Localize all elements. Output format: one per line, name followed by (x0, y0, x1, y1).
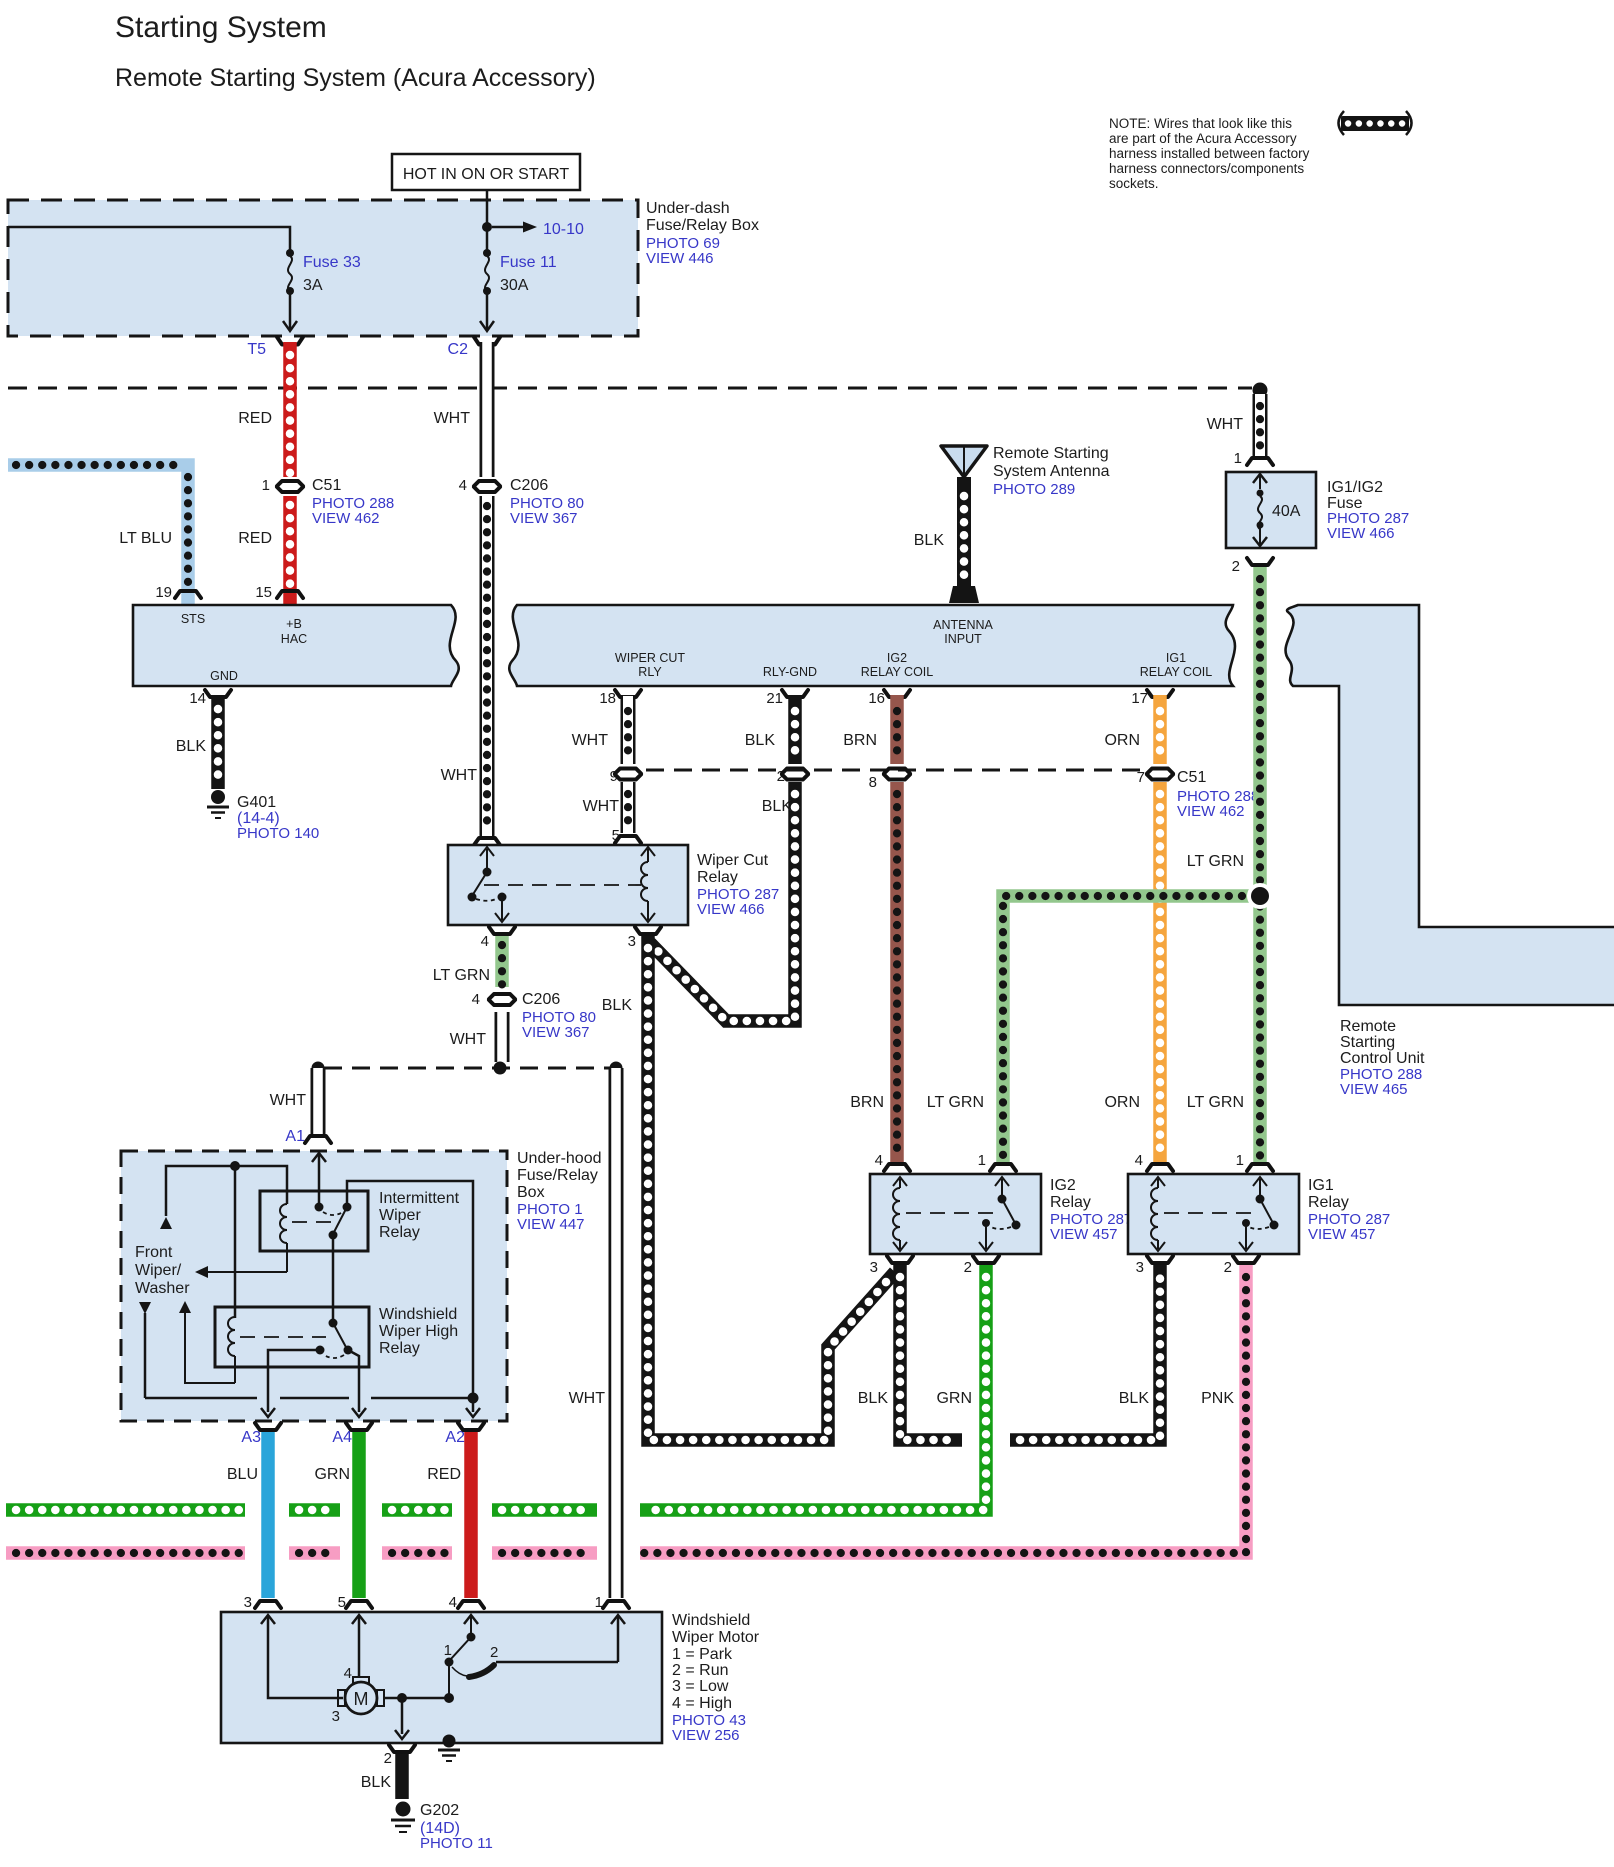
pin 14 connector (189, 690, 231, 707)
svg-text:Wiper Cut: Wiper Cut (697, 852, 769, 869)
note icon: accessory wire sample (1339, 111, 1412, 135)
svg-text:Relay: Relay (1050, 1194, 1091, 1211)
svg-text:BLU: BLU (227, 1466, 258, 1483)
svg-text:VIEW 457: VIEW 457 (1050, 1226, 1118, 1243)
pin 3 connector below IG1 relay (1136, 1256, 1173, 1276)
wire: BRN pin 8 to IG2 relay pin 4 (850, 782, 897, 1162)
svg-text:LT GRN: LT GRN (433, 967, 490, 984)
svg-text:LT GRN: LT GRN (927, 1094, 984, 1111)
wire: BLK pin 2 down and over to wiper relay pin 3 (650, 782, 795, 1021)
title: Starting System (115, 11, 327, 44)
svg-text:3: 3 (244, 1594, 252, 1611)
svg-text:1: 1 (1234, 450, 1242, 467)
wire: LT GRN fuse pin 2 to IG1 relay pin 1 (1187, 567, 1260, 1162)
wire: top interior rail (160, 1161, 287, 1229)
connector C206 pin 4 (lower) (472, 991, 596, 1041)
svg-text:Wiper: Wiper (379, 1207, 421, 1224)
svg-text:RLY-GND: RLY-GND (763, 665, 817, 679)
label: Front Wiper/Washer (135, 1244, 190, 1297)
ground G401 (207, 790, 319, 842)
svg-text:2: 2 (1232, 558, 1240, 575)
dash-dot link in IG1 relay (1164, 1212, 1252, 1214)
svg-text:VIEW 256: VIEW 256 (672, 1727, 740, 1744)
svg-text:4: 4 (1135, 1152, 1143, 1169)
svg-text:WHT: WHT (434, 410, 471, 427)
motor park switch (444, 1615, 625, 1698)
svg-text:VIEW 457: VIEW 457 (1308, 1226, 1376, 1243)
pin 15 connector (255, 584, 303, 601)
svg-text:Fuse 33: Fuse 33 (303, 254, 361, 271)
wire: high relay coil to Front Wiper/Washer (up arrow) (179, 1301, 235, 1383)
harness: PNK accessory line segments (6, 1546, 597, 1560)
pin 1 connector at IG2 relay (978, 1152, 1016, 1171)
svg-text:3: 3 (332, 1708, 340, 1725)
wire: RED A2 to motor pin 4 (427, 1432, 471, 1598)
svg-text:M: M (354, 1689, 369, 1709)
svg-text:A1: A1 (285, 1128, 305, 1145)
svg-text:18: 18 (599, 690, 616, 707)
fuse F11 (Fuse 11 30A) (480, 249, 557, 331)
wire: RED C51 to pin 15 (238, 496, 290, 604)
connector C206 pin 4 (459, 477, 584, 527)
motor pin 3 lead (261, 1615, 343, 1698)
svg-text:2 = Run: 2 = Run (672, 1662, 728, 1679)
pin 18 connector (599, 690, 641, 707)
wire: motor ground lead to pin 2 (395, 1698, 409, 1739)
node: junction at 10-10 tap (482, 222, 492, 232)
svg-text:VIEW 446: VIEW 446 (646, 250, 714, 267)
svg-text:LT GRN: LT GRN (1187, 1094, 1244, 1111)
svg-text:Windshield: Windshield (379, 1306, 457, 1323)
svg-text:A3: A3 (241, 1429, 261, 1446)
svg-text:HOT IN ON OR START: HOT IN ON OR START (403, 166, 569, 183)
pin A1 connector (285, 1128, 331, 1145)
wire: HOT feed down (486, 190, 489, 250)
svg-text:INPUT: INPUT (944, 632, 982, 646)
pin 4 connector at IG2 relay (875, 1152, 910, 1171)
connector C51 pin 2 (777, 768, 808, 785)
svg-text:VIEW 462: VIEW 462 (312, 510, 380, 527)
svg-text:VIEW 466: VIEW 466 (1327, 525, 1395, 542)
wire: WHT divider junction to fuse pin 1 (1207, 394, 1260, 456)
motor pin 5 lead (352, 1615, 366, 1678)
svg-text:2: 2 (490, 1644, 498, 1661)
wire: feed from left edge to fuse 33 (8, 227, 290, 250)
wire: BLK IG2 pin 3 down right (858, 1265, 962, 1440)
wire: motor to switch common (384, 1693, 454, 1703)
svg-text:VIEW 462: VIEW 462 (1177, 803, 1245, 820)
dashed junction line (A1 tap) (312, 1062, 623, 1075)
svg-text:Remote: Remote (1340, 1018, 1396, 1035)
wire: LT GRN branch to IG2 relay pin 1 (927, 896, 1250, 1162)
high relay switch (316, 1319, 353, 1359)
svg-text:STS: STS (181, 612, 205, 626)
svg-text:HAC: HAC (281, 632, 307, 646)
svg-text:IG1: IG1 (1166, 651, 1186, 665)
pin 4 connector at IG1 relay (1135, 1152, 1173, 1171)
svg-text:VIEW 447: VIEW 447 (517, 1216, 585, 1233)
svg-text:VIEW 367: VIEW 367 (510, 510, 578, 527)
svg-text:IG1/IG2: IG1/IG2 (1327, 479, 1383, 496)
svg-text:4 = High: 4 = High (672, 1695, 732, 1712)
svg-text:Windshield: Windshield (672, 1612, 750, 1629)
wire: BLK motor pin 2 to G202 (361, 1754, 402, 1799)
pin 1 connector at IG1 relay (1236, 1152, 1273, 1171)
svg-text:LT BLU: LT BLU (119, 530, 172, 547)
svg-text:WHT: WHT (441, 767, 478, 784)
svg-text:PHOTO 289: PHOTO 289 (993, 481, 1075, 498)
svg-text:RED: RED (238, 410, 272, 427)
pin 3 connector below wiper cut relay (628, 927, 661, 950)
svg-text:+B: +B (286, 617, 302, 631)
wire: WHT C206 to dashed junction (450, 1012, 502, 1062)
svg-text:BLK: BLK (1119, 1390, 1150, 1407)
under-hood fuse/relay box (121, 1150, 602, 1421)
svg-text:BRN: BRN (843, 732, 877, 749)
under-dash fuse/relay box (8, 200, 638, 336)
pin 1 connector at IG1/IG2 fuse (1234, 450, 1273, 467)
svg-text:Fuse/Relay Box: Fuse/Relay Box (646, 217, 759, 234)
dashed page divider (8, 387, 1252, 390)
svg-text:Fuse 11: Fuse 11 (500, 254, 557, 271)
svg-text:BRN: BRN (850, 1094, 884, 1111)
svg-text:C51: C51 (1177, 769, 1206, 786)
svg-text:1: 1 (444, 1642, 452, 1659)
svg-text:ORN: ORN (1104, 732, 1140, 749)
svg-text:C206: C206 (522, 991, 560, 1008)
svg-text:14: 14 (189, 690, 206, 707)
pin 3 connector below IG2 relay (870, 1256, 913, 1276)
svg-text:8: 8 (869, 774, 877, 791)
relay IG2 (870, 1174, 1132, 1254)
svg-text:4: 4 (875, 1152, 883, 1169)
svg-text:Relay: Relay (379, 1340, 420, 1357)
pin 3 connector at motor (244, 1594, 281, 1611)
svg-text:System Antenna: System Antenna (993, 463, 1110, 480)
wiper cut relay switch (468, 847, 510, 922)
svg-text:Relay: Relay (379, 1224, 420, 1241)
node: LT GRN junction (1247, 883, 1273, 909)
svg-text:17: 17 (1131, 690, 1148, 707)
wire: high relay contact to A4 (348, 1350, 366, 1417)
svg-text:GRN: GRN (314, 1466, 350, 1483)
pin 21 connector (766, 690, 808, 707)
svg-text:Box: Box (517, 1184, 545, 1201)
svg-text:RELAY COIL: RELAY COIL (861, 665, 934, 679)
svg-text:Relay: Relay (1308, 1194, 1349, 1211)
svg-text:NOTE: Wires that look like thi: NOTE: Wires that look like this (1109, 116, 1292, 131)
wire: GRN IG2 pin 2 to harness (640, 1265, 986, 1510)
svg-text:3 = Low: 3 = Low (672, 1678, 729, 1695)
wire: WHT accessory C206 to wiper cut relay pin 1 (441, 496, 487, 836)
wire: WHT junction to wiper motor pin 1 (569, 1068, 616, 1598)
svg-text:RLY: RLY (638, 665, 662, 679)
wire: ORN pin 17 to pin 7 (1104, 695, 1160, 764)
svg-text:2: 2 (964, 1259, 972, 1276)
terminal T5 (247, 337, 303, 358)
svg-text:Wiper Motor: Wiper Motor (672, 1629, 760, 1646)
subtitle: Remote Starting System (Acura Accessory) (115, 64, 596, 92)
pin A4 connector (332, 1423, 372, 1446)
wire: WHT junction to A1 (270, 1068, 318, 1134)
svg-text:G202: G202 (420, 1802, 459, 1819)
wire: BRN pin 16 to pin 8 (843, 695, 897, 764)
pin A3 connector (241, 1423, 281, 1446)
wire: to Front Wiper/Washer (left arrow) (195, 1266, 287, 1278)
wire: WHT pin 18 to pin 9 (572, 695, 628, 764)
wire: down-feed to A2 rail (139, 1302, 480, 1417)
svg-text:C2: C2 (448, 341, 469, 358)
IG1 relay coil (1151, 1177, 1165, 1251)
wiper cut relay coil (641, 847, 655, 922)
svg-text:7: 7 (1137, 769, 1145, 786)
IG1 relay switch (1239, 1177, 1279, 1251)
IG2 relay switch (979, 1177, 1021, 1251)
svg-text:Fuse/Relay: Fuse/Relay (517, 1167, 598, 1184)
wire: RED T5 to C51 (238, 342, 290, 477)
dash-dot link in IG2 relay (906, 1212, 994, 1214)
svg-text:G401: G401 (237, 794, 276, 811)
svg-text:WHT: WHT (450, 1031, 487, 1048)
svg-text:Under-hood: Under-hood (517, 1150, 602, 1167)
svg-text:4: 4 (481, 933, 489, 950)
control unit band left (STS / +B HAC / GND) (133, 605, 459, 686)
svg-text:LT GRN: LT GRN (1187, 853, 1244, 870)
svg-text:Starting: Starting (1340, 1034, 1395, 1051)
svg-text:Remote Starting System (Acura: Remote Starting System (Acura Accessory) (115, 64, 596, 92)
svg-text:2: 2 (384, 1750, 392, 1767)
wire: BLK pin 21 to pin 2 (745, 695, 795, 764)
svg-text:2: 2 (1224, 1259, 1232, 1276)
svg-text:4: 4 (449, 1594, 457, 1611)
svg-text:3A: 3A (303, 277, 323, 294)
harness: GRN accessory line segments (6, 1503, 597, 1517)
svg-text:PHOTO 140: PHOTO 140 (237, 825, 319, 842)
svg-text:21: 21 (766, 690, 783, 707)
note text (1109, 116, 1310, 191)
svg-text:sockets.: sockets. (1109, 176, 1159, 191)
svg-text:T5: T5 (247, 341, 266, 358)
pin 5 connector at motor (338, 1594, 372, 1611)
svg-text:10-10: 10-10 (543, 221, 584, 238)
svg-text:3: 3 (628, 933, 636, 950)
svg-text:WHT: WHT (572, 732, 609, 749)
motor M symbol (332, 1665, 384, 1725)
relay: Wiper Cut Relay (448, 845, 779, 925)
pin 2 connector below IG1 relay (1224, 1256, 1259, 1276)
svg-text:WHT: WHT (569, 1390, 606, 1407)
svg-text:A4: A4 (332, 1429, 352, 1446)
pin 2 connector at fuse (1232, 558, 1273, 575)
svg-text:3: 3 (870, 1259, 878, 1276)
pin 2 connector below motor (384, 1745, 415, 1767)
svg-text:RED: RED (427, 1466, 461, 1483)
wire: A1 into box (312, 1153, 326, 1206)
svg-text:C51: C51 (312, 477, 341, 494)
high relay coil (228, 1317, 235, 1383)
svg-text:Control Unit: Control Unit (1340, 1050, 1425, 1067)
control unit band middle (509, 605, 1235, 686)
svg-text:VIEW 465: VIEW 465 (1340, 1081, 1408, 1098)
svg-text:BLK: BLK (914, 532, 945, 549)
box: HOT IN ON OR START (392, 154, 580, 190)
svg-text:WHT: WHT (270, 1092, 307, 1109)
svg-text:IG2: IG2 (887, 651, 907, 665)
svg-text:BLK: BLK (762, 798, 793, 815)
connector C51 pin 7 (1137, 769, 1260, 821)
svg-text:Front: Front (135, 1244, 173, 1261)
svg-text:Wiper High: Wiper High (379, 1323, 458, 1340)
wire: LT BLU from left edge to pin 19 (8, 465, 188, 604)
svg-text:19: 19 (155, 584, 172, 601)
pin 2 connector below IG2 relay (964, 1256, 999, 1276)
connector C51 pin 1 (262, 477, 395, 527)
svg-text:4: 4 (459, 477, 467, 494)
label: Under-dash Fuse/Relay Box (646, 200, 759, 267)
svg-text:PHOTO 11: PHOTO 11 (420, 1835, 493, 1852)
pin 1 connector at wiper cut relay (474, 838, 500, 845)
svg-text:Intermittent: Intermittent (379, 1190, 460, 1207)
fuse F33 (Fuse 33 3A) (283, 249, 361, 331)
wire: BLK wiper relay pin 3 down and right (602, 936, 895, 1440)
svg-text:WIPER CUT: WIPER CUT (615, 651, 686, 665)
wire: ORN pin 7 to IG1 relay pin 4 (1104, 782, 1160, 1162)
wire: WHT pin 9 to pin 5 (583, 782, 628, 833)
pin 16 connector (868, 690, 910, 707)
svg-text:4: 4 (472, 991, 480, 1008)
svg-text:WHT: WHT (583, 798, 620, 815)
IG2 relay coil (893, 1177, 907, 1251)
wire: PNK IG1 pin 2 to harness (640, 1265, 1246, 1553)
wire: rail down to high relay coil (234, 1166, 237, 1318)
svg-text:harness installed between fact: harness installed between factory (1109, 146, 1310, 161)
ground inside motor (438, 1735, 460, 1762)
intermittent relay switch (315, 1203, 352, 1240)
svg-text:BLK: BLK (176, 738, 207, 755)
svg-text:BLK: BLK (361, 1774, 392, 1791)
svg-text:1: 1 (978, 1152, 986, 1169)
pin 5 connector at wiper cut relay (612, 827, 641, 844)
svg-text:Starting System: Starting System (115, 11, 327, 44)
wire: LT GRN stub pin 4 to C206 (433, 936, 502, 987)
svg-text:BLK: BLK (745, 732, 776, 749)
control unit body (Remote Starting Control Unit) (1286, 605, 1614, 1098)
relay IG1 (1128, 1174, 1390, 1254)
wire: arrow to 10-10 (492, 221, 584, 238)
svg-text:Remote Starting: Remote Starting (993, 445, 1109, 462)
wire: high relay contact to A3 (261, 1350, 320, 1417)
node: junction on divider (1253, 383, 1268, 398)
svg-text:ORN: ORN (1104, 1094, 1140, 1111)
svg-text:Washer: Washer (135, 1280, 190, 1297)
relay: Windshield Wiper High Relay (215, 1306, 458, 1367)
svg-text:3: 3 (1136, 1259, 1144, 1276)
wire: intermittent relay contact up to A2 rail (347, 1181, 473, 1396)
dash-dot link in wiper cut relay (484, 884, 641, 886)
svg-text:1: 1 (1236, 1152, 1244, 1169)
wire: GRN A4 to motor pin 5 (314, 1432, 359, 1598)
relay: Intermittent Wiper Relay (260, 1190, 460, 1251)
dashed connector line C51 (646, 769, 1146, 772)
svg-text:4: 4 (344, 1665, 352, 1682)
antenna: Remote Starting System Antenna (914, 445, 1110, 603)
svg-text:are part of the Acura Accessor: are part of the Acura Accessory (1109, 131, 1297, 146)
connector C51 pin 8 (869, 769, 910, 792)
connector C51 pin 9 (610, 768, 641, 785)
motor: Windshield Wiper Motor box (221, 1612, 760, 1744)
svg-text:Wiper/: Wiper/ (135, 1262, 182, 1279)
svg-text:VIEW 466: VIEW 466 (697, 901, 765, 918)
pin 19 connector (155, 584, 201, 601)
svg-text:harness connectors/components: harness connectors/components (1109, 161, 1304, 176)
svg-text:RELAY COIL: RELAY COIL (1140, 665, 1213, 679)
wire: BLU A3 to motor pin 3 (227, 1432, 268, 1598)
intermittent relay coil (280, 1204, 287, 1272)
ground G202 (391, 1802, 493, 1853)
svg-text:16: 16 (868, 690, 885, 707)
pin 4 connector at motor (449, 1594, 484, 1611)
svg-text:WHT: WHT (1207, 416, 1244, 433)
svg-text:VIEW 367: VIEW 367 (522, 1024, 590, 1041)
wire: WHT C2 to C206 (double line) (434, 342, 487, 477)
svg-text:GRN: GRN (936, 1390, 972, 1407)
svg-text:30A: 30A (500, 277, 529, 294)
dash-dot links in under-hood relays (240, 1222, 340, 1337)
svg-text:PNK: PNK (1201, 1390, 1234, 1407)
svg-text:15: 15 (255, 584, 272, 601)
svg-text:Under-dash: Under-dash (646, 200, 730, 217)
svg-text:BLK: BLK (602, 997, 633, 1014)
wire: BLK pin 14 to G401 (176, 695, 218, 789)
svg-text:IG2: IG2 (1050, 1177, 1076, 1194)
svg-text:IG1: IG1 (1308, 1177, 1334, 1194)
svg-text:ANTENNA: ANTENNA (933, 618, 993, 632)
wire: relay arm down to high relay (332, 1235, 335, 1322)
svg-text:RED: RED (238, 530, 272, 547)
pin A2 connector (445, 1423, 484, 1446)
fuse IG1/IG2 (40A) (1226, 472, 1409, 548)
pin 1 connector at wiper motor (595, 1594, 629, 1611)
svg-text:1 = Park: 1 = Park (672, 1646, 733, 1663)
svg-text:1: 1 (262, 477, 270, 494)
pin 17 connector (1131, 690, 1173, 707)
svg-text:C206: C206 (510, 477, 548, 494)
svg-text:Relay: Relay (697, 869, 738, 886)
svg-text:40A: 40A (1272, 503, 1301, 520)
svg-text:GND: GND (210, 669, 238, 683)
wire: BLK continuation to IG1 pin 3 (1010, 1265, 1160, 1440)
terminal C2 (448, 337, 500, 358)
svg-text:BLK: BLK (858, 1390, 889, 1407)
pin 4 connector below wiper cut relay (481, 927, 515, 950)
